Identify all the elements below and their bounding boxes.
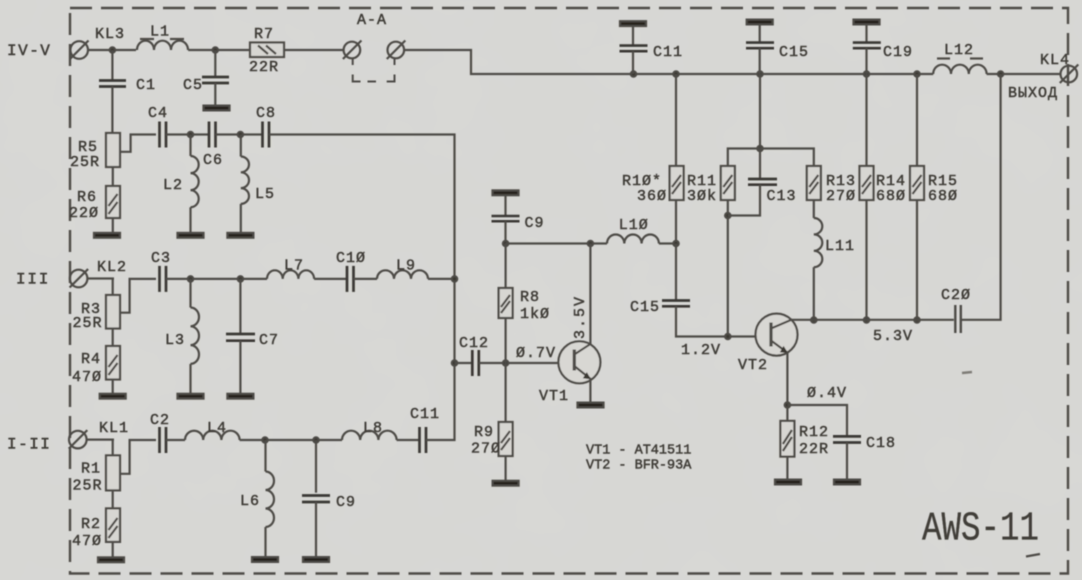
wire C3 to junction: [166, 278, 267, 280]
wire KL3 to L1: [88, 49, 137, 51]
wire base line to R9: [505, 363, 507, 422]
wire L7 to C10: [314, 278, 347, 280]
wire C11 lower to combiner: [426, 363, 455, 440]
wire L12 to KL4: [987, 73, 1061, 75]
svg-text:25R: 25R: [73, 315, 103, 332]
wire R13 to L11: [813, 200, 815, 218]
svg-text:47Ø: 47Ø: [72, 369, 102, 386]
inductor L3: [165, 279, 199, 394]
connector KL3: [70, 26, 125, 59]
wire VT2 collector line: [790, 319, 954, 321]
capacitor C5: [183, 50, 229, 106]
wire R11 link line: [728, 149, 814, 167]
node C20 col top: [998, 71, 1003, 76]
wire R15 to collector line: [916, 200, 918, 320]
wire VT2 emitter down: [786, 352, 788, 421]
resistor R8: [499, 288, 550, 323]
wire C10 to L9: [354, 278, 378, 280]
inductor L11: [814, 218, 855, 320]
resistor R14: [860, 166, 907, 205]
svg-text:22R: 22R: [249, 59, 279, 76]
node R14 collector: [864, 317, 869, 322]
wire bus to R15: [916, 74, 918, 166]
ground under C9 lower: [303, 557, 329, 562]
svg-text:KL3: KL3: [95, 26, 125, 43]
svg-text:27Ø: 27Ø: [471, 441, 501, 458]
node L6 top: [262, 437, 267, 442]
capacitor C15 top: [746, 24, 809, 74]
svg-text:Ø.4V: Ø.4V: [807, 385, 847, 402]
capacitor C15 lower: [630, 299, 690, 316]
wire node to R3: [112, 279, 114, 296]
capacitor C13: [728, 149, 797, 216]
capacitor C7: [226, 279, 279, 394]
svg-text:A-A: A-A: [357, 12, 387, 29]
svg-text:III: III: [16, 271, 50, 289]
svg-text:KL2: KL2: [97, 259, 127, 276]
wire node to R1: [112, 440, 114, 456]
wire R14 to collector line: [865, 200, 867, 320]
wire node to C15 lower: [675, 244, 677, 301]
node C7 top: [238, 276, 243, 281]
svg-text:68Ø: 68Ø: [876, 188, 906, 205]
inductor L10: [607, 217, 659, 244]
ground under L5: [227, 233, 253, 238]
svg-text:IV-V: IV-V: [7, 42, 51, 60]
svg-text:L6: L6: [240, 493, 260, 510]
wire A-A to bus: [404, 50, 633, 74]
resistor R9: [471, 422, 513, 458]
wire C8 to combiner: [269, 135, 455, 364]
wire combiner to C12: [455, 362, 473, 364]
inductor L12: [933, 42, 986, 74]
node L5 top: [238, 132, 243, 137]
capacitor C2: [150, 412, 170, 453]
wire node to R8: [505, 244, 507, 289]
transistor VT1: [539, 341, 600, 405]
svg-text:ВЫХОД: ВЫХОД: [1008, 85, 1058, 102]
resistor R3: [73, 295, 121, 332]
svg-text:VT1 - AT41511: VT1 - AT41511: [586, 444, 691, 459]
svg-text:Ø.7V: Ø.7V: [516, 345, 556, 362]
node bus R15: [914, 71, 919, 76]
wire L8 to C11 lower: [397, 439, 420, 441]
capacitor C9 lower: [302, 440, 356, 557]
svg-text:22Ø: 22Ø: [69, 205, 99, 222]
svg-text:5.3V: 5.3V: [873, 328, 913, 345]
svg-text:L1: L1: [150, 24, 170, 41]
node R11 C13 bottom: [725, 213, 730, 218]
node bus C15 top: [757, 71, 762, 76]
svg-text:VT2 - BFR-93A: VT2 - BFR-93A: [586, 459, 692, 474]
wire C12 to VT1 base: [479, 362, 571, 364]
svg-text:L3: L3: [165, 332, 185, 349]
node R10 L10: [673, 241, 678, 246]
wire R7 to A-A: [284, 49, 344, 51]
wire L4 to L8: [240, 439, 342, 441]
tap R3 to C3 line: [120, 279, 156, 313]
ground above C19: [854, 20, 880, 25]
svg-text:25R: 25R: [70, 154, 100, 171]
legend VT1 VT2: [586, 444, 692, 474]
resistor R5: [70, 133, 120, 171]
node VT1 collector top: [588, 241, 593, 246]
svg-text:36Ø: 36Ø: [637, 188, 667, 205]
capacitor C20: [941, 287, 971, 333]
wire R4 to ground: [112, 380, 114, 395]
svg-text:R12: R12: [799, 424, 829, 441]
capacitor C12: [459, 335, 489, 376]
capacitor C6: [203, 122, 223, 170]
capacitor C1: [99, 50, 156, 133]
svg-text:L8: L8: [363, 420, 383, 437]
node at C1 top: [110, 47, 115, 52]
svg-text:I-II: I-II: [7, 436, 51, 454]
node bus C11: [631, 71, 636, 76]
inductor L8: [342, 420, 397, 440]
wire R6 to ground: [112, 218, 114, 233]
svg-text:L11: L11: [825, 238, 855, 255]
connector KL1: [69, 420, 129, 449]
svg-text:C3: C3: [151, 250, 171, 267]
svg-text:R4: R4: [81, 351, 101, 368]
resistor R15: [910, 166, 958, 205]
svg-text:AWS-11: AWS-11: [922, 507, 1039, 553]
svg-text:R8: R8: [520, 289, 540, 306]
ground above C11: [620, 21, 646, 26]
node C13 top: [757, 146, 762, 151]
node R15 collector: [914, 317, 919, 322]
wire R9 to ground: [505, 456, 507, 481]
svg-text:C7: C7: [259, 332, 279, 349]
svg-text:1kØ: 1kØ: [520, 306, 550, 323]
ground under VT1: [578, 403, 604, 408]
svg-text:68Ø: 68Ø: [928, 188, 958, 205]
ground under R4: [100, 394, 126, 399]
svg-text:C15: C15: [630, 299, 660, 316]
bracket under A-A: [353, 58, 395, 82]
capacitor C19: [853, 24, 913, 74]
wire R12 to ground: [786, 457, 788, 480]
svg-text:R1: R1: [81, 461, 101, 478]
ground under R6: [94, 233, 120, 238]
wire R10 to L10 node: [675, 200, 677, 244]
wire R3 to R4: [112, 329, 114, 347]
ground above C9 mid: [493, 190, 519, 195]
wire C9 to L10: [506, 242, 607, 244]
svg-text:C5: C5: [183, 77, 203, 94]
node R11 base line: [725, 334, 730, 339]
wire C19 col to R14: [865, 74, 867, 166]
ground under C7: [227, 394, 253, 399]
svg-text:L2: L2: [163, 177, 183, 194]
ground under L6: [252, 557, 278, 562]
resistor R6: [69, 186, 120, 222]
svg-text:C11: C11: [653, 44, 683, 61]
resistor R11: [687, 166, 735, 205]
wire C15 lower to VT2 base: [676, 306, 770, 336]
svg-text:3.5V: 3.5V: [572, 295, 589, 339]
svg-text:C9: C9: [336, 494, 356, 511]
inductor L1: [137, 24, 188, 51]
inductor L9: [377, 258, 428, 279]
svg-text:KL1: KL1: [99, 420, 129, 437]
wire C2 to L4: [166, 439, 185, 441]
ground above C15 top: [747, 20, 773, 25]
svg-text:C11: C11: [410, 406, 440, 423]
svg-text:1.2V: 1.2V: [681, 342, 721, 359]
capacitor C4: [148, 105, 168, 148]
ground under R9: [493, 481, 519, 486]
wire C20 to bus column: [962, 74, 1001, 320]
wire R11 to base line: [727, 200, 729, 337]
capacitor C9 mid: [492, 195, 545, 243]
wire C4 to C6: [166, 133, 209, 135]
svg-text:L12: L12: [944, 42, 974, 59]
svg-text:C19: C19: [883, 44, 913, 61]
svg-text:L7: L7: [284, 258, 304, 275]
mark under title: [1026, 554, 1040, 557]
transistor VT2: [738, 314, 798, 374]
tap R5 to C4 line: [120, 135, 156, 152]
wire C15 col to C13 node: [759, 74, 761, 149]
svg-text:VT1: VT1: [539, 388, 569, 405]
resistor R10: [622, 166, 684, 205]
svg-text:27Ø: 27Ø: [826, 188, 856, 205]
connector A-A left: [343, 12, 387, 59]
wire VT1 emitter to ground: [589, 378, 591, 403]
connector KL2: [70, 259, 127, 288]
svg-text:C13: C13: [767, 188, 797, 205]
ground under R2: [98, 557, 124, 562]
ground under C18: [834, 480, 860, 485]
node R8 R9 junction: [503, 360, 508, 365]
resistor R12: [780, 421, 829, 458]
wire L1 to R7: [188, 49, 250, 51]
node L3 top: [188, 276, 193, 281]
node emitter R12: [785, 402, 790, 407]
svg-text:C2: C2: [150, 412, 170, 429]
capacitor C8: [256, 105, 276, 148]
svg-text:C18: C18: [866, 435, 896, 452]
wire bus to R10: [675, 74, 677, 166]
ground under C5: [204, 106, 230, 111]
connector A-A right: [387, 41, 406, 60]
svg-text:C1Ø: C1Ø: [336, 250, 366, 267]
wire KL1 to node: [86, 439, 114, 441]
connector KL4: [1040, 52, 1078, 83]
wire bus C11 to L12: [634, 73, 934, 75]
svg-text:L1Ø: L1Ø: [619, 217, 649, 234]
ground under L3: [178, 394, 204, 399]
svg-text:C6: C6: [203, 152, 223, 169]
tap R1 to C2 line: [120, 440, 156, 474]
resistor R7: [249, 26, 284, 76]
svg-text:L5: L5: [255, 186, 275, 203]
ground under L2: [178, 233, 204, 238]
node at C5 top: [213, 47, 218, 52]
svg-text:C1: C1: [136, 77, 156, 94]
resistor R2: [72, 508, 120, 550]
svg-text:C9: C9: [525, 215, 545, 232]
wire R8 to base line: [505, 318, 507, 363]
svg-text:C12: C12: [459, 335, 489, 352]
svg-text:R7: R7: [254, 26, 274, 43]
svg-text:C2Ø: C2Ø: [941, 287, 971, 304]
capacitor C11 top: [620, 26, 684, 74]
svg-text:25R: 25R: [73, 478, 103, 495]
wire R5 to R6: [112, 167, 114, 186]
inductor L2: [163, 135, 199, 234]
wire KL2 to node: [87, 277, 114, 279]
svg-text:L9: L9: [396, 258, 416, 275]
svg-text:R2: R2: [81, 516, 101, 533]
svg-text:47Ø: 47Ø: [72, 533, 102, 550]
resistor R13: [807, 166, 856, 205]
wire R2 to ground: [112, 542, 114, 558]
node C9 R8 L10: [503, 241, 508, 246]
wire L10 to R10 column: [659, 242, 676, 244]
capacitor C11 lower: [410, 406, 440, 453]
scan speck: [962, 372, 972, 373]
resistor R4: [72, 346, 120, 386]
wire L9 to combiner: [428, 278, 455, 280]
svg-text:R6: R6: [77, 189, 97, 206]
capacitor C10: [336, 250, 366, 292]
svg-text:C8: C8: [256, 105, 276, 122]
capacitor C3: [151, 250, 171, 292]
inductor L4: [185, 420, 240, 440]
svg-text:VT2: VT2: [738, 357, 768, 374]
wire VT1 collector: [589, 244, 591, 345]
node C9 bottom top: [313, 437, 318, 442]
wire emitter node to C18: [787, 405, 847, 436]
wire R1 to R2: [112, 490, 114, 508]
node L11 collector line: [811, 317, 816, 322]
node bus C19: [864, 71, 869, 76]
capacitor C18: [833, 435, 896, 480]
svg-text:KL4: KL4: [1040, 52, 1070, 69]
svg-text:C4: C4: [148, 105, 168, 122]
node combiner base: [452, 360, 457, 365]
wire C6 to C8: [216, 133, 263, 135]
inductor L5: [241, 135, 275, 234]
svg-text:3Øk: 3Øk: [687, 188, 717, 205]
ground under R12: [775, 480, 801, 485]
node L2 top: [188, 132, 193, 137]
node bus R10: [673, 71, 678, 76]
resistor R1: [73, 455, 121, 494]
inductor L6: [240, 440, 274, 557]
svg-text:C15: C15: [779, 44, 809, 61]
svg-text:22R: 22R: [799, 441, 829, 458]
svg-text:R9: R9: [474, 424, 494, 441]
inductor L7: [267, 258, 314, 279]
svg-text:L4: L4: [207, 420, 227, 437]
node combiner III: [452, 276, 457, 281]
